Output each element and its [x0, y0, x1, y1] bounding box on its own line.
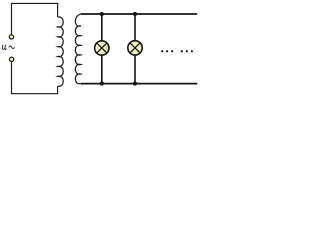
terminal top [9, 35, 13, 39]
junction dot top lamp1 [100, 12, 104, 16]
ellipsis dots continuation [161, 50, 193, 52]
lamp E1 [95, 41, 109, 55]
label ~ [9, 46, 15, 49]
junction dot bottom lamp1 [100, 82, 104, 86]
terminal bottom [9, 57, 13, 61]
junction dot top lamp2 [133, 12, 137, 16]
wire top rail [81, 13, 197, 15]
inductor L2 secondary coil [75, 14, 81, 84]
inductor L1 primary coil [58, 17, 64, 86]
wire left-loop outline [12, 3, 58, 93]
wire lamp1 leads [101, 14, 103, 41]
junction dot bottom lamp2 [133, 82, 137, 86]
wire lamp2 leads [134, 14, 136, 41]
label u [2, 45, 6, 49]
wire bottom rail [81, 83, 197, 85]
lamp E2 [128, 41, 142, 55]
